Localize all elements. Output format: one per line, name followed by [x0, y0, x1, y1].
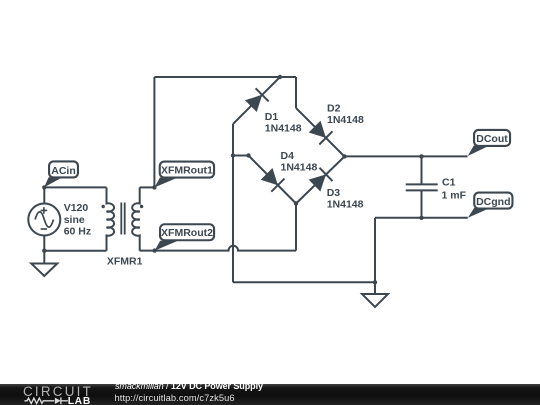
svg-text:V120: V120: [64, 202, 89, 214]
wire AC source bottom stem: [43, 236, 45, 251]
transformer secondary polarity dot: [140, 205, 143, 208]
flag ACin: [44, 161, 78, 187]
wire secondary top to XFMRout1 node: [140, 186, 155, 188]
svg-text:XFMR1: XFMR1: [107, 256, 143, 268]
node bridge left: [231, 153, 235, 157]
footer bar: [0, 384, 540, 405]
voltage source V120 circle: [28, 204, 60, 236]
wire up to bridge bottom corner: [295, 204, 297, 251]
svg-text:D4: D4: [281, 150, 295, 162]
voltage source minus sign: [41, 228, 47, 230]
transformer core: [121, 203, 124, 235]
wire XFMRout1 node up: [153, 77, 155, 187]
wire ground horizontal: [233, 281, 375, 283]
svg-text:D3: D3: [327, 187, 341, 199]
flag XFMRout1: [155, 162, 214, 188]
capacitor C1: [406, 156, 438, 217]
svg-text:ACin: ACin: [51, 165, 76, 177]
wire XFMRout2 run with hop over vertical: [140, 246, 296, 251]
voltage source plus sign: [41, 207, 48, 214]
footer logo: [0, 384, 100, 405]
svg-text:XFMRout1: XFMRout1: [161, 164, 213, 176]
svg-text:D2: D2: [327, 103, 341, 115]
svg-text:DCout: DCout: [476, 133, 508, 145]
svg-text:XFMRout2: XFMRout2: [161, 227, 213, 239]
wire primary bottom: [44, 250, 106, 252]
wire top right down to D2: [295, 77, 297, 108]
transformer XFMR1 secondary winding: [132, 187, 140, 250]
wire D1 corner vertical: [232, 124, 234, 156]
node cap top: [419, 154, 423, 158]
node ground rail: [373, 280, 377, 284]
svg-text:1N4148: 1N4148: [327, 114, 364, 126]
wire DCout rail: [345, 155, 468, 157]
ground (bridge): [362, 282, 388, 307]
wire left corner jog: [233, 155, 249, 157]
flag DCgnd: [468, 193, 513, 218]
node ACin: [42, 185, 46, 189]
wire primary top: [44, 186, 106, 188]
flag DCout: [468, 130, 510, 156]
wire top horizontal: [154, 76, 296, 78]
svg-text:60 Hz: 60 Hz: [64, 226, 91, 238]
node D4 anode: [246, 153, 250, 157]
svg-text:D1: D1: [265, 111, 279, 123]
svg-text:LAB: LAB: [68, 396, 91, 405]
node XFMRout1: [152, 185, 156, 189]
node cap bottom: [419, 216, 423, 220]
svg-text:sine: sine: [64, 214, 85, 226]
ground (under source): [31, 251, 57, 276]
transformer XFMR1 primary winding: [107, 187, 115, 250]
transformer primary polarity dot: [102, 205, 105, 208]
diode D3: [296, 157, 345, 204]
svg-text:C1: C1: [442, 176, 456, 188]
node XFMRout2: [152, 248, 156, 252]
svg-text:1N4148: 1N4148: [265, 122, 302, 134]
diode D2: [296, 108, 345, 157]
node top junction: [278, 75, 282, 79]
flag XFMRout2: [155, 224, 214, 250]
wire ground vertical from left corner: [232, 156, 234, 283]
wire ground up to DCgnd rail: [374, 218, 376, 282]
wire DCgnd rail: [375, 217, 468, 219]
wire AC source top stem: [43, 187, 45, 203]
node bridge bottom: [294, 201, 298, 205]
voltage source sine symbol: [35, 212, 53, 227]
footer text: [115, 381, 263, 391]
svg-text:DCgnd: DCgnd: [476, 196, 510, 208]
diode D4: [249, 156, 297, 204]
node AC bottom: [42, 249, 46, 253]
diode D1: [233, 77, 280, 124]
svg-text:1N4148: 1N4148: [327, 199, 364, 211]
svg-text:1 mF: 1 mF: [442, 190, 467, 202]
node bridge right: [342, 154, 346, 158]
svg-text:1N4148: 1N4148: [281, 162, 318, 174]
node junction dots: [42, 75, 424, 285]
